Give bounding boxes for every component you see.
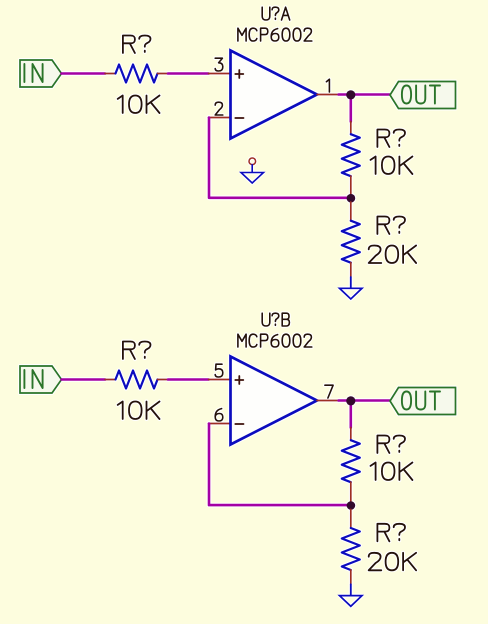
wire output to OUT flag xyxy=(339,399,390,402)
pin 7 stub (output) xyxy=(317,400,339,402)
wire output node down to R2 xyxy=(349,95,352,122)
wire output node down to R2 xyxy=(349,401,352,428)
label 10K (feedback resistor) xyxy=(371,463,413,481)
junction (feedback node) xyxy=(347,194,356,203)
junction (output node) xyxy=(346,396,355,405)
junction (feedback node) xyxy=(347,501,356,510)
resistor R? 20K (unit A) xyxy=(350,202,352,221)
feedback wire xyxy=(209,424,351,506)
resistor R? 10K (input, unit A) xyxy=(105,73,116,75)
wire output to OUT flag xyxy=(339,93,390,96)
label R? (feedback resistor) xyxy=(377,436,405,454)
resistor R? 20K (unit B) xyxy=(350,509,352,528)
label MCP6002 xyxy=(238,28,312,41)
pin 1 stub (output) xyxy=(317,94,339,96)
wire IN to R1 xyxy=(62,72,106,75)
label U?A xyxy=(262,7,290,20)
ground pin circle (op-amp A power) xyxy=(249,158,256,165)
label R? (20K resistor) xyxy=(377,217,405,235)
junction (output node) xyxy=(346,90,355,99)
pin 2 stub (- input) xyxy=(209,117,231,119)
port flag IN (unit A) xyxy=(20,60,62,87)
feedback wire xyxy=(209,118,351,198)
op-amp U?A triangle xyxy=(231,51,318,139)
pin 5 stub (+ input) xyxy=(209,379,231,381)
wire R1 to op-amp + input xyxy=(168,72,209,75)
pin number 3 xyxy=(215,58,223,71)
op-amp - mark xyxy=(235,117,243,119)
pin 3 stub (+ input) xyxy=(209,73,231,75)
pin number 7 xyxy=(325,385,333,398)
op-amp - mark xyxy=(235,423,243,425)
wire R1 to op-amp + input xyxy=(168,378,209,381)
label MCP6002 xyxy=(238,334,312,347)
port flag IN (unit B) xyxy=(20,366,62,393)
resistor R? 10K (feedback, unit B) xyxy=(350,428,352,441)
port flag OUT (unit B) xyxy=(390,388,456,415)
label 10K (input resistor) xyxy=(118,96,160,114)
label R? (20K resistor) xyxy=(377,524,405,542)
pin number 1 xyxy=(326,79,329,92)
label 10K (feedback resistor) xyxy=(371,157,413,175)
label 20K xyxy=(369,553,416,571)
label R? (input resistor) xyxy=(123,342,151,360)
op-amp + mark xyxy=(235,376,243,384)
ground symbol (op-amp A power) xyxy=(251,165,253,172)
label 20K xyxy=(369,246,416,264)
port flag OUT (unit A) xyxy=(390,82,456,109)
label 10K (input resistor) xyxy=(118,402,160,420)
pin 6 stub (- input) xyxy=(209,423,231,425)
label R? (input resistor) xyxy=(123,36,151,54)
label U?B xyxy=(262,313,289,326)
op-amp U?B triangle xyxy=(231,357,318,445)
op-amp + mark xyxy=(235,70,243,78)
pin number 5 xyxy=(215,364,223,377)
pin number 2 xyxy=(215,102,223,115)
wire IN to R1 xyxy=(62,378,106,381)
label R? (feedback resistor) xyxy=(377,130,405,148)
pin number 6 xyxy=(215,409,223,421)
ground (below 20K, unit B) xyxy=(340,596,363,607)
ground (below 20K, unit A) xyxy=(340,288,363,299)
resistor R? 10K (input, unit B) xyxy=(105,379,116,381)
resistor R? 10K (feedback, unit A) xyxy=(350,122,352,135)
